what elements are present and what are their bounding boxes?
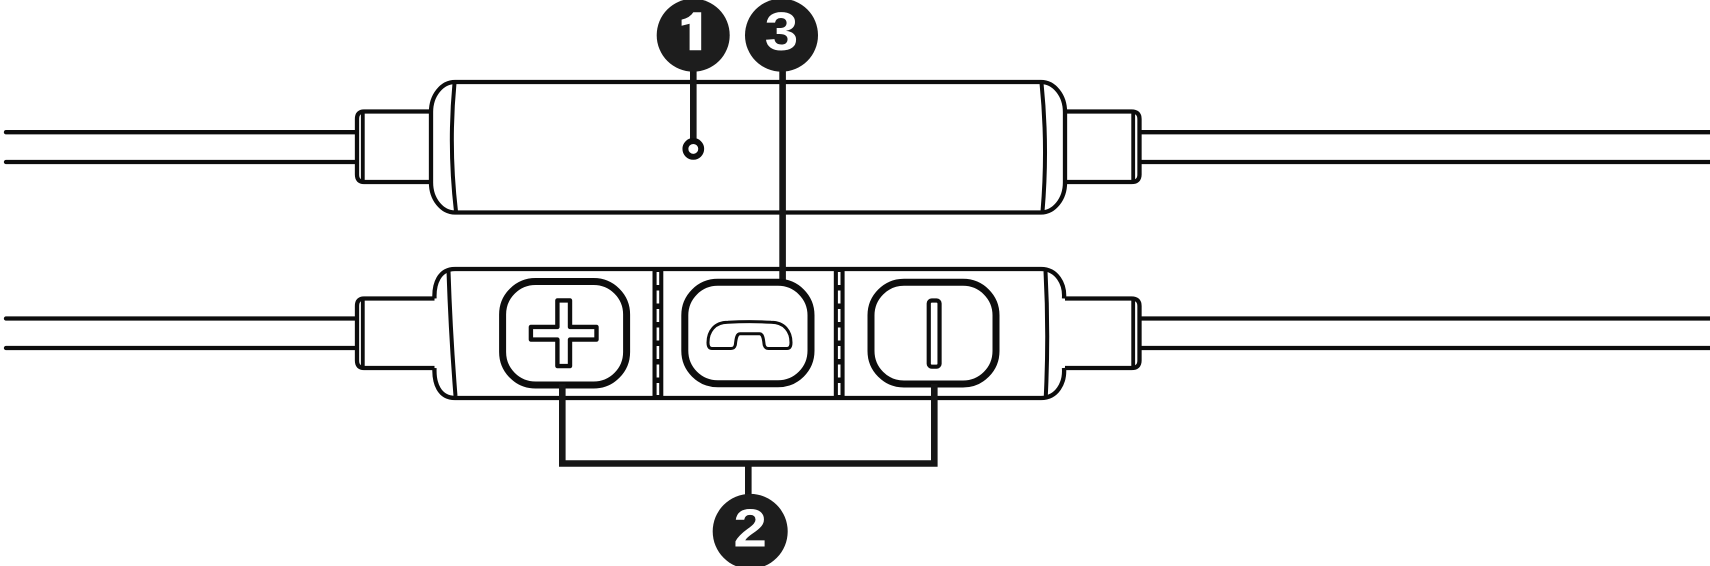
wire top-right cable upper line <box>1137 130 1710 134</box>
strain relief top-left <box>357 112 436 183</box>
strain relief bottom-left <box>357 299 436 369</box>
bar icon <box>929 301 940 367</box>
bottom body right inner arc <box>1046 271 1048 396</box>
top body left inner arc <box>452 83 456 212</box>
wire bottom-right cable upper line <box>1137 316 1710 320</box>
top body right inner arc <box>1042 83 1046 212</box>
volume up button <box>503 282 627 386</box>
handset icon <box>708 322 791 349</box>
wire top-left cable lower line <box>6 160 358 164</box>
call button <box>685 282 811 384</box>
bottom body top outline with bell ends <box>434 269 1064 299</box>
remote body front view (bottom) fill <box>434 269 1064 398</box>
divider 2 (dashed seam between call and minus sections) <box>834 269 845 398</box>
strain relief top-right <box>1065 112 1140 183</box>
callout 3 stem <box>779 35 786 290</box>
bottom body bottom outline with bell ends <box>434 368 1064 398</box>
microphone hole <box>685 141 701 157</box>
wire top-right cable lower line <box>1137 160 1710 164</box>
plus icon <box>531 300 597 366</box>
wire bottom-right cable lower line <box>1137 346 1710 350</box>
svg-text:3: 3 <box>765 2 799 62</box>
callout 2 stem <box>745 464 752 497</box>
strain relief bottom-right <box>1065 299 1140 369</box>
divider 1 (dashed seam between + and call sections) <box>653 269 664 398</box>
bottom body left inner arc <box>449 271 456 396</box>
callout circle 1 <box>657 0 730 72</box>
svg-text:2: 2 <box>733 498 767 558</box>
wire bottom-left cable upper line <box>6 316 358 320</box>
wire top-left cable upper line <box>6 130 358 134</box>
callout circle 2 <box>713 494 788 566</box>
remote body rear view (top) <box>431 82 1065 213</box>
callout 2 bracket <box>562 384 934 464</box>
callout circle 3 <box>745 0 818 72</box>
wire bottom-left cable lower line <box>6 346 358 350</box>
volume down button <box>871 282 996 384</box>
callout 1 stem <box>690 35 697 140</box>
